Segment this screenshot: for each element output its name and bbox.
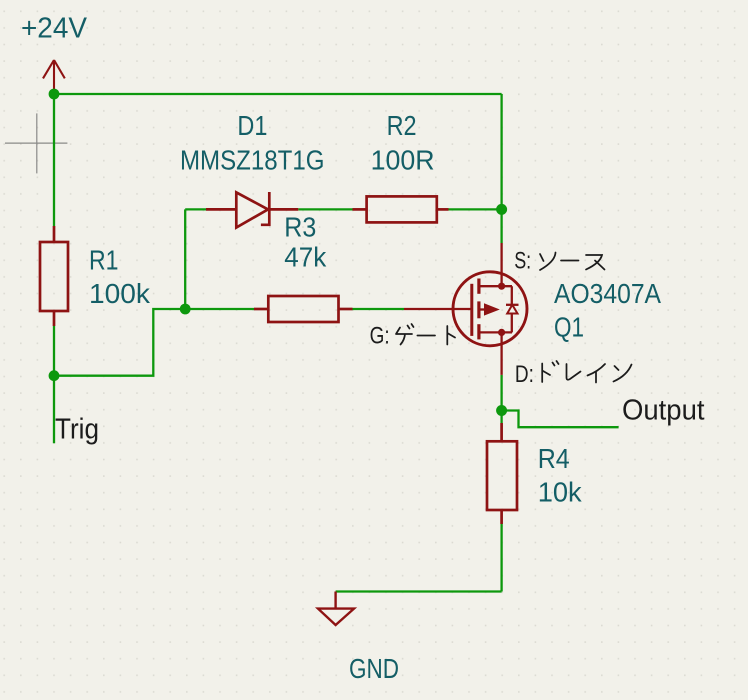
junction R3 node (180, 304, 191, 315)
katakana ge (396, 324, 414, 345)
body diode vertical (511, 286, 513, 332)
drain dot (498, 329, 505, 336)
wire junction R3 left (185, 308, 254, 310)
svg-text:R2: R2 (387, 110, 417, 141)
svg-text:Output: Output (622, 394, 705, 426)
wire D1 to R2 (298, 208, 352, 210)
pin name G:gate (370, 322, 455, 349)
channel bar middle (477, 301, 480, 318)
svg-text:100R: 100R (371, 144, 435, 175)
crosshair origin marker (5, 113, 67, 173)
wire R3 to Q1 gate (353, 308, 405, 310)
drain pin (500, 332, 502, 375)
wire junction to Trig stub (53, 376, 55, 444)
source dot (498, 283, 505, 290)
wire source to junction (500, 209, 502, 243)
wire top right vertical (500, 94, 502, 210)
body diode triangle (507, 305, 517, 314)
resistor R1 (40, 226, 68, 326)
channel bar bottom (477, 324, 480, 339)
arrow head (484, 303, 500, 315)
svg-text:47k: 47k (284, 242, 327, 273)
svg-text:G:: G: (370, 322, 390, 349)
resistor R4 (487, 423, 517, 524)
svg-text:D:: D: (515, 361, 534, 388)
katakana n (614, 365, 632, 382)
katakana so (540, 253, 556, 271)
arrow line (479, 308, 486, 310)
junction at +24V (49, 89, 60, 100)
pin name D:drain (515, 361, 632, 388)
katakana chouon (417, 335, 435, 337)
katakana re (567, 364, 581, 380)
drain connect (479, 331, 512, 333)
wire top horizontal (54, 93, 502, 95)
svg-text:R1: R1 (89, 245, 119, 276)
wire R2 to junction (449, 208, 502, 210)
wire drain down (500, 375, 502, 423)
gate bar (470, 284, 473, 336)
ground symbol (318, 592, 354, 626)
source pin (500, 243, 502, 286)
body circle (453, 272, 527, 346)
body diode cathode bar (506, 304, 519, 306)
junction Trig node (49, 370, 60, 381)
wire output jog (502, 411, 619, 428)
transistor Q1 (404, 243, 527, 375)
svg-text:Q1: Q1 (554, 312, 584, 343)
svg-text:Trig: Trig (55, 413, 99, 445)
resistor R2 (353, 196, 449, 222)
wire R4 bottom down (500, 524, 502, 592)
wire junction right and up to R3 row (54, 309, 185, 376)
pin name S:source (514, 248, 604, 275)
svg-text:10k: 10k (538, 477, 583, 508)
wire R1 bottom to junction (53, 326, 55, 376)
svg-text:R3: R3 (284, 211, 316, 242)
svg-text:100k: 100k (89, 278, 151, 309)
katakana i (588, 364, 606, 383)
katakana do (542, 361, 558, 382)
wire bottom horizontal to GND (336, 590, 502, 592)
katakana to (447, 326, 455, 345)
channel bar top (477, 279, 480, 294)
svg-text:R4: R4 (538, 443, 570, 474)
katakana su (586, 255, 605, 270)
gate pin (404, 308, 471, 310)
svg-text:S:: S: (514, 248, 531, 275)
wire corner to D1 (185, 208, 206, 210)
svg-text:D1: D1 (237, 110, 267, 141)
katakana chouon (561, 260, 579, 262)
resistor R3 (254, 296, 353, 322)
diode D1 (206, 192, 298, 228)
junction source node (496, 204, 507, 215)
svg-text:AO3407A: AO3407A (554, 278, 661, 309)
wire left vertical to R1 (53, 94, 55, 226)
junction output node (496, 405, 507, 416)
svg-text:GND: GND (349, 653, 399, 684)
svg-text:+24V: +24V (21, 13, 88, 45)
wire diode row vertical (184, 209, 186, 309)
power symbol +24V (43, 60, 65, 94)
source connect (479, 285, 512, 287)
svg-text:MMSZ18T1G: MMSZ18T1G (180, 144, 325, 175)
